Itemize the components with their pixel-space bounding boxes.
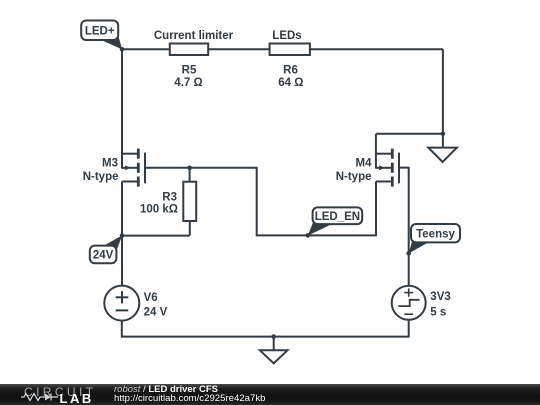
svg-text:LED+: LED+ <box>85 25 115 37</box>
footer bar <box>0 384 540 405</box>
transistor M4 <box>336 134 399 187</box>
ground bottom <box>260 337 288 364</box>
svg-text:R6: R6 <box>283 65 298 77</box>
node LED_EN flag <box>308 207 362 235</box>
svg-text:24V: 24V <box>93 250 114 262</box>
wire 3V3 top to M4 gate <box>399 168 409 286</box>
svg-text:M3: M3 <box>102 158 118 170</box>
svg-text:N-type: N-type <box>83 171 119 183</box>
svg-text:24 V: 24 V <box>144 307 168 319</box>
node LED+ junction <box>120 47 125 52</box>
svg-text:LEDs: LEDs <box>272 30 301 42</box>
resistor R5 <box>154 30 234 89</box>
svg-text:LED_EN: LED_EN <box>315 211 360 223</box>
svg-text:M4: M4 <box>356 158 373 170</box>
wire left vertical from LED+ node <box>121 49 123 168</box>
svg-text:N-type: N-type <box>336 171 372 183</box>
svg-text:4.7 Ω: 4.7 Ω <box>174 77 202 89</box>
wire R3 top lead <box>189 168 191 182</box>
svg-text:5 s: 5 s <box>430 306 446 318</box>
node 24V flag <box>90 235 122 263</box>
svg-text:R5: R5 <box>182 65 197 77</box>
svg-text:R3: R3 <box>162 192 177 204</box>
wire R3 bottom lead <box>189 221 191 236</box>
wire node A to R3 bottom <box>122 235 190 237</box>
ground top right <box>428 148 457 162</box>
svg-text:3V3: 3V3 <box>430 291 450 303</box>
svg-text:Teensy: Teensy <box>416 228 455 240</box>
wire V6 bottom rail <box>122 320 409 337</box>
node R3 top junction <box>187 166 192 171</box>
logo CIRCUIT LAB <box>24 385 96 399</box>
node ground junction <box>271 334 276 339</box>
wire right vertical <box>442 49 444 147</box>
wire M4 drain to right rail <box>376 133 443 135</box>
transistor M3 <box>83 149 145 187</box>
svg-text:64 Ω: 64 Ω <box>278 77 303 89</box>
resistor R6 <box>270 30 310 89</box>
svg-text:Current limiter: Current limiter <box>154 30 234 42</box>
node 24V junction <box>120 233 125 238</box>
voltage source V6 <box>104 286 167 321</box>
node LED_EN junction <box>306 233 311 238</box>
node Teensy junction <box>406 251 411 256</box>
resistor R3 <box>140 182 196 221</box>
svg-text:100 kΩ: 100 kΩ <box>140 204 178 216</box>
wire M3 source down <box>121 182 123 236</box>
voltage source V: 3V3 step <box>392 286 451 320</box>
wire M3 gate to LED_EN to M4 source <box>146 168 376 236</box>
node Teensy flag <box>409 224 460 253</box>
node LED+ flag <box>81 21 122 50</box>
node right rail junction <box>441 131 446 136</box>
svg-text:V6: V6 <box>144 292 158 304</box>
wire top rail LED+ to right <box>122 48 443 50</box>
wire 24V node to V6 <box>121 236 123 286</box>
